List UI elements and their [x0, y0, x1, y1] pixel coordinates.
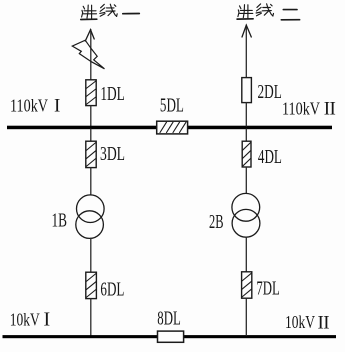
wire: 2DL to 110kV bus II — [245, 103, 247, 126]
transformer 2B (two-winding) — [232, 193, 260, 237]
svg-text:2DL: 2DL — [258, 81, 282, 103]
transformer 1B (two-winding) — [76, 195, 104, 239]
svg-text:1DL: 1DL — [100, 83, 124, 105]
wire: transformer 1B to 6DL — [90, 238, 92, 272]
svg-text:110kV: 110kV — [282, 99, 320, 119]
circuit breaker 2DL (plain box) — [242, 78, 252, 103]
wire: 4DL to transformer 2B — [245, 167, 247, 193]
wire: left incoming line vertical (above 1DL) — [90, 30, 92, 80]
circuit breaker 1DL (hatched box) — [86, 80, 96, 106]
circuit breaker 6DL (hatched box) — [86, 272, 97, 298]
circuit breaker 4DL (hatched box) — [242, 141, 251, 167]
wire: 3DL to transformer 1B — [90, 168, 92, 195]
char 一 — [123, 13, 140, 15]
bus-tie breaker 5DL (hatched box on busbar) — [157, 121, 188, 134]
svg-text:8DL: 8DL — [157, 308, 181, 330]
circuit breaker 7DL (hatched box) — [242, 272, 252, 298]
svg-text:II: II — [318, 312, 330, 333]
busbar 10kV (bus sections I and II) — [3, 335, 337, 338]
svg-text:2B: 2B — [209, 211, 224, 233]
label 进线二 (incoming line 2) — [237, 4, 300, 20]
char 线 — [100, 4, 117, 16]
wire: 7DL to 10kV bus II — [245, 298, 247, 335]
wire: transformer 2B to 7DL — [245, 237, 247, 272]
svg-text:5DL: 5DL — [160, 94, 184, 116]
char 线 — [256, 4, 273, 16]
svg-text:6DL: 6DL — [100, 278, 124, 300]
svg-text:I: I — [44, 309, 51, 331]
wire: bus II to 4DL — [245, 129, 247, 141]
wire: bus I to 3DL — [90, 129, 92, 141]
bus-tie breaker 8DL (plain box on busbar) — [158, 331, 184, 342]
svg-text:I: I — [54, 95, 60, 116]
char 二 — [281, 10, 299, 20]
svg-text:10kV: 10kV — [10, 309, 40, 329]
svg-text:110kV: 110kV — [10, 95, 48, 115]
label 进线一 (incoming line 1) — [81, 4, 140, 19]
svg-text:4DL: 4DL — [258, 146, 282, 168]
busbar 110kV (bus sections I and II) — [7, 126, 332, 130]
wire: 6DL to 10kV bus I — [90, 299, 92, 336]
arrowhead on right incoming line — [242, 25, 251, 37]
svg-text:II: II — [324, 99, 336, 120]
svg-text:7DL: 7DL — [256, 277, 279, 299]
lightning-surge arrow symbol — [72, 40, 104, 69]
wire: 1DL to 110kV bus I — [90, 106, 92, 126]
svg-text:3DL: 3DL — [100, 143, 125, 165]
arrowhead on left incoming line — [85, 30, 94, 41]
circuit breaker 3DL (hatched box) — [86, 141, 96, 167]
wire: right incoming line vertical (above 2DL) — [245, 25, 247, 78]
char 进 — [81, 5, 97, 19]
svg-text:1B: 1B — [52, 210, 68, 232]
svg-text:10kV: 10kV — [285, 312, 315, 332]
char 进 — [237, 5, 253, 19]
